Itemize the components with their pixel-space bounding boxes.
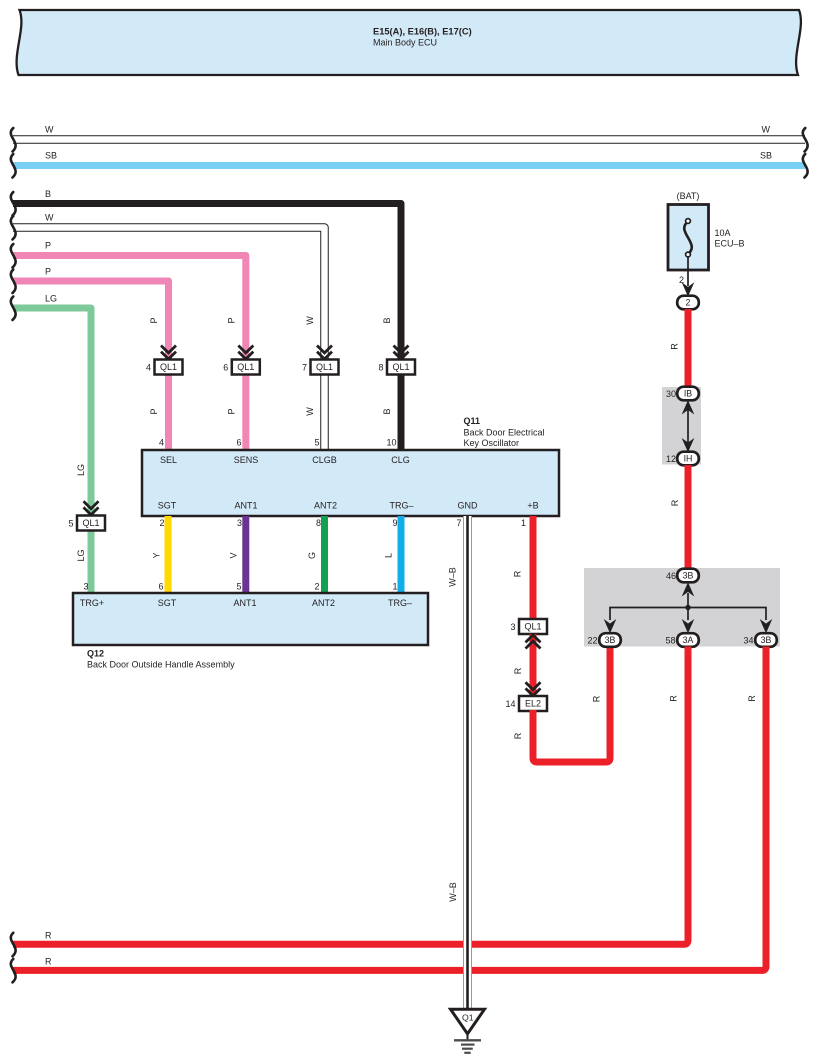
svg-text:QL1: QL1 [316,362,333,372]
svg-text:3: 3 [237,518,242,528]
svg-text:SB: SB [45,151,57,161]
connector EL2 pin14 [519,696,547,711]
svg-text:LG: LG [45,294,57,304]
pin 2 label fuse [679,275,684,285]
svg-text:V: V [229,552,239,558]
svg-text:B: B [382,317,392,323]
svg-text:LG: LG [76,549,86,561]
pin 4 at Q11 [159,438,164,448]
svg-text:10: 10 [386,438,396,448]
label P col2 upper [227,317,237,323]
connector QL1 pin8 [387,360,415,375]
svg-text:2: 2 [314,582,319,592]
svg-text:TRG–: TRG– [388,598,412,608]
arrow into 22 3B [605,621,615,633]
pin 30 label [666,389,676,399]
svg-text:3B: 3B [683,571,694,581]
svg-text:W: W [305,316,315,325]
svg-text:P: P [45,241,51,251]
pin 1 below Q11 [521,518,526,528]
pin 5 at Q11 [314,438,319,448]
break symbol W right [803,128,808,152]
svg-text:QL1: QL1 [82,518,99,528]
label R below EL2 [513,732,523,739]
svg-text:46: 46 [666,571,676,581]
chevron into EL2 [526,682,541,696]
wire R IH to 3B [685,465,692,569]
ground Q1 [451,1009,485,1053]
pin 9 below Q11 [392,518,397,528]
label B left [45,189,51,199]
label Y [152,552,162,558]
pin 1 at Q12 [392,582,397,592]
wire R fuse to IB [685,309,692,387]
break symbol W2 [11,216,16,240]
label Q11 title [464,416,545,448]
svg-text:W: W [45,213,54,223]
pin 46 label [666,571,676,581]
svg-text:QL1: QL1 [237,362,254,372]
svg-text:ANT1: ANT1 [234,501,257,511]
pin 7 below Q11 [456,518,461,528]
pin 14 label [505,699,515,709]
label R fuse col [670,343,680,350]
label Q12 title [87,649,235,670]
svg-text:W: W [305,407,315,416]
wire Y SGT [165,516,172,593]
svg-text:QL1: QL1 [160,362,177,372]
svg-text:Q12: Q12 [87,649,104,659]
block Q12 Back Door Outside Handle Assembly [73,593,428,645]
svg-text:TRG–: TRG– [389,501,413,511]
wire R 34 to left [13,647,766,971]
junction wire horizontal [610,605,766,620]
wire P to SENS [13,256,246,451]
label B col4 upper [382,317,392,323]
label P col2 lower [227,408,237,414]
label W col3 upper [305,316,315,325]
pin 2 below Q11 [159,518,164,528]
break symbol LG [11,297,16,321]
svg-text:Main Body ECU: Main Body ECU [373,38,437,48]
svg-text:CLG: CLG [391,455,410,465]
connector QL1 pin5 [77,516,105,531]
break symbol R1 [11,933,16,957]
pin 8 label [378,363,383,373]
connector QL1 pin6 [232,360,260,375]
svg-text:5: 5 [236,582,241,592]
label P col1 lower [149,408,159,414]
pin 34 label [743,636,753,646]
wire W to CLGB [13,228,325,451]
svg-text:EL2: EL2 [525,699,541,709]
block Q11 Back Door Electrical Key Oscillator [142,450,559,516]
pin 7 label [302,363,307,373]
label G [307,552,317,559]
break symbol SB right [803,154,808,178]
label W left2 [45,213,54,223]
label R mid [513,667,523,674]
wire V ANT1 [242,516,249,593]
svg-text:5: 5 [68,519,73,529]
connector oval 46 3B [677,569,699,583]
wire L TRG- [398,516,405,593]
svg-text:LG: LG [76,464,86,476]
label P left1 [45,241,51,251]
svg-text:4: 4 [146,363,151,373]
pin 6 label [223,363,228,373]
wire R 58 to left [13,647,688,945]
svg-text:3B: 3B [761,635,772,645]
svg-text:9: 9 [392,518,397,528]
connector QL1 pin7 [311,360,339,375]
label R col 22 [592,695,602,702]
svg-text:7: 7 [302,363,307,373]
svg-text:B: B [45,189,51,199]
svg-text:W–B: W–B [448,882,458,902]
svg-text:Q11: Q11 [464,416,481,426]
svg-text:SGT: SGT [158,598,177,608]
wire W-B GND to ground [463,516,472,1009]
connector oval IH [677,452,699,466]
label R bottom2 [45,957,52,967]
svg-text:G: G [307,552,317,559]
wire R from +B [530,516,537,620]
label L [384,553,394,558]
svg-text:SEL: SEL [160,455,177,465]
svg-text:22: 22 [587,636,597,646]
arrow into 34 3B [761,621,771,633]
wire fuse to connector 2 [687,257,689,287]
svg-text:1: 1 [521,518,526,528]
wire B to CLG [13,204,401,451]
svg-text:Key Oscillator: Key Oscillator [464,438,520,448]
label (BAT) [677,191,700,201]
pin 3 below Q11 [237,518,242,528]
svg-text:R: R [513,570,523,577]
svg-text:P: P [45,267,51,277]
pin 5 label [68,519,73,529]
label W left [45,125,54,135]
connector QL1 pin3 [519,619,547,634]
svg-text:SENS: SENS [234,455,259,465]
svg-text:R: R [669,695,679,702]
pin 2 at Q12 [314,582,319,592]
svg-text:TRG+: TRG+ [80,598,104,608]
svg-text:3: 3 [83,582,88,592]
connector oval 22 3B [599,633,621,647]
label R col 58 [669,695,679,702]
label V [229,552,239,558]
wire W horizontal top [13,135,805,144]
svg-text:ANT2: ANT2 [314,501,337,511]
label W col3 lower [305,407,315,416]
label R col 34 [747,695,757,702]
break symbol P1 [11,244,16,268]
label LG col lower [76,549,86,561]
fuse 10A ECU-B box [668,205,709,271]
svg-text:2: 2 [159,518,164,528]
svg-text:B: B [382,408,392,414]
wire R EL2 to 3B [533,647,610,762]
svg-text:IB: IB [684,389,692,399]
svg-text:7: 7 [456,518,461,528]
pin 6 at Q11 [236,438,241,448]
wire LG to TRG+ [13,308,91,593]
chevron into QL1 pin7 [317,346,332,360]
svg-text:8: 8 [378,363,383,373]
svg-text:10A: 10A [715,228,731,238]
svg-text:Back Door Outside Handle Assem: Back Door Outside Handle Assembly [87,660,235,670]
pin 22 label [587,636,597,646]
svg-text:R: R [747,695,757,702]
svg-text:6: 6 [223,363,228,373]
label B col4 lower [382,408,392,414]
svg-text:R: R [513,667,523,674]
pin 4 label [146,363,151,373]
svg-text:QL1: QL1 [392,362,409,372]
svg-text:ECU–B: ECU–B [715,239,745,249]
label W right [762,125,771,135]
svg-text:Y: Y [152,552,162,558]
svg-text:6: 6 [236,438,241,448]
pin 8 below Q11 [316,518,321,528]
svg-text:P: P [149,408,159,414]
svg-text:12: 12 [666,454,676,464]
label P left2 [45,267,51,277]
svg-text:Back Door Electrical: Back Door Electrical [464,428,545,438]
pin 3 label QL1 [510,622,515,632]
svg-text:5: 5 [314,438,319,448]
svg-text:SB: SB [760,151,772,161]
pin 58 label [665,636,675,646]
pin 3 at Q12 [83,582,88,592]
break symbol W left [11,128,16,152]
svg-text:IH: IH [684,454,693,464]
junction block IB-IH [662,387,701,465]
svg-text:R: R [670,343,680,350]
pin 6 at Q12 [158,582,163,592]
svg-text:30: 30 [666,389,676,399]
svg-text:R: R [592,695,602,702]
svg-text:+B: +B [527,501,538,511]
label SB left [45,151,57,161]
arrow link IB-IH [683,402,693,452]
svg-text:P: P [227,317,237,323]
svg-text:3A: 3A [683,635,694,645]
svg-text:R: R [670,499,680,506]
connector oval 34 3B [755,633,777,647]
label R IH col [670,499,680,506]
svg-text:E15(A), E16(B), E17(C): E15(A), E16(B), E17(C) [373,27,472,37]
svg-text:6: 6 [158,582,163,592]
svg-text:QL1: QL1 [524,622,541,632]
chevron into QL1 pin6 [238,346,253,360]
svg-text:(BAT): (BAT) [677,191,700,201]
svg-text:R: R [45,931,52,941]
break symbol P2 [11,270,16,294]
svg-text:W: W [762,125,771,135]
label SB right [760,151,772,161]
svg-text:P: P [149,317,159,323]
svg-text:ANT2: ANT2 [312,598,335,608]
label 10A ECU-B [715,228,745,249]
arrow up into 46 3B [683,584,693,608]
svg-text:4: 4 [159,438,164,448]
label W-B col upper [448,567,458,587]
break symbol B [11,192,16,216]
chevron into QL1 pin8 [394,346,409,360]
svg-text:L: L [384,553,394,558]
svg-text:3B: 3B [605,635,616,645]
arrow into 58 3A [683,621,693,633]
svg-text:R: R [513,732,523,739]
svg-text:GND: GND [458,501,479,511]
svg-text:W–B: W–B [448,567,458,587]
chevron into QL1 pin5 [84,501,99,515]
wire P to SEL [13,281,169,450]
svg-text:R: R [45,957,52,967]
svg-text:1: 1 [392,582,397,592]
label W-B lower [448,882,458,902]
connector oval 2 [677,296,699,310]
pin 5 at Q12 [236,582,241,592]
chevron out of QL1 pin3 [526,635,541,649]
svg-text:3: 3 [510,622,515,632]
connector QL1 pin4 [155,360,183,375]
svg-text:Q1: Q1 [462,1013,474,1023]
connector oval IB [677,387,699,401]
junction block 3B-3A [584,568,780,647]
pin 10 at Q11 [386,438,396,448]
svg-text:2: 2 [686,298,691,308]
wire G ANT2 [321,516,328,593]
arrow into connector 2 [683,284,693,296]
wire SB horizontal [13,162,805,169]
svg-text:14: 14 [505,699,515,709]
svg-text:CLGB: CLGB [312,455,337,465]
svg-text:34: 34 [743,636,753,646]
label R bottom1 [45,931,52,941]
break symbol SB left [11,154,16,178]
chevron into QL1 pin4 [161,346,176,360]
svg-text:8: 8 [316,518,321,528]
svg-text:P: P [227,408,237,414]
connector oval 58 3A [677,633,699,647]
svg-text:W: W [45,125,54,135]
label R +B col [513,570,523,577]
pin 12 label [666,454,676,464]
connector banner E15/E16/E17 Main Body ECU [17,10,801,75]
break symbol R2 [11,959,16,983]
label P col1 upper [149,317,159,323]
label LG left [45,294,57,304]
svg-text:SGT: SGT [158,501,177,511]
svg-text:ANT1: ANT1 [233,598,256,608]
svg-text:58: 58 [665,636,675,646]
label LG col upper [76,464,86,476]
wire R QL1 to EL2 [530,634,537,697]
